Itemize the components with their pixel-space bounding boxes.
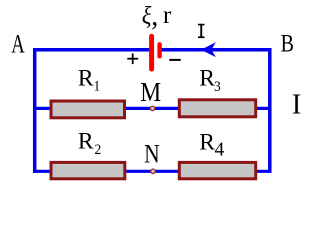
wire upper branch (through R1, M, R3) xyxy=(33,107,271,110)
svg-text:R: R xyxy=(199,66,215,92)
current label I (right side) xyxy=(292,90,301,121)
battery + polarity mark xyxy=(127,53,138,64)
svg-text:R: R xyxy=(78,65,94,91)
node label A xyxy=(11,29,25,58)
resistor R2 xyxy=(51,162,125,178)
svg-text:B: B xyxy=(281,30,294,58)
resistor R1 xyxy=(51,101,125,118)
svg-text:r: r xyxy=(163,2,172,29)
wire right vertical (B down to lower branch) xyxy=(268,48,272,173)
svg-text:N: N xyxy=(144,141,160,169)
resistor R4 xyxy=(179,162,255,178)
wire lower branch (through R2, N, R4) xyxy=(33,170,271,173)
wire top-right (battery - to B) xyxy=(160,48,271,52)
svg-text:3: 3 xyxy=(214,78,221,95)
resistor R3 xyxy=(179,100,255,117)
battery - polarity mark xyxy=(169,59,180,61)
wire left vertical (A down to lower branch) xyxy=(33,48,37,173)
current label I (top, near arrow) xyxy=(198,24,205,38)
current arrow I (pointing left toward battery) xyxy=(201,42,216,57)
wire top-left (A to battery +) xyxy=(33,48,152,52)
svg-text:M: M xyxy=(140,77,161,107)
svg-text:2: 2 xyxy=(95,141,102,158)
resistor R3 label xyxy=(199,66,221,96)
node M xyxy=(150,106,154,110)
svg-text:,: , xyxy=(151,1,158,32)
battery long plate (+) xyxy=(149,36,154,69)
resistor R1 label xyxy=(78,65,100,95)
svg-text:R: R xyxy=(199,130,215,156)
svg-text:4: 4 xyxy=(215,139,225,160)
svg-text:R: R xyxy=(78,128,94,154)
resistor R4 label xyxy=(199,130,224,161)
node N xyxy=(151,169,155,173)
svg-text:1: 1 xyxy=(94,78,101,95)
battery short plate (-) xyxy=(157,44,161,56)
svg-text:I: I xyxy=(292,90,301,121)
node N label xyxy=(144,141,160,169)
node M label xyxy=(140,77,161,107)
resistor R2 label xyxy=(78,128,101,158)
node label B xyxy=(281,30,294,58)
battery value label ξ,r xyxy=(142,1,172,32)
svg-text:A: A xyxy=(11,29,25,58)
